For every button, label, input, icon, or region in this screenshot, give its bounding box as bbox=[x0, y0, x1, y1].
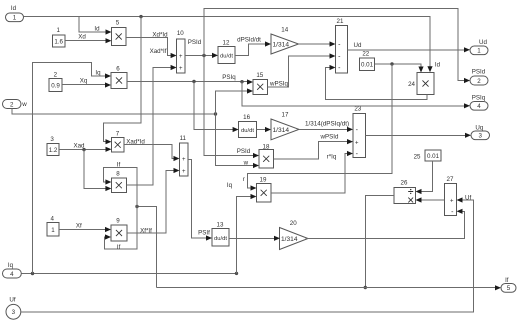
svg-text:Xf: Xf bbox=[76, 222, 82, 229]
wire from gain 14 to sum 21 input 1 bbox=[299, 41, 336, 46]
svg-text:+: + bbox=[179, 54, 183, 60]
wire If loop to product 9 input 2 bbox=[105, 207, 138, 251]
wire If rail to output port 5 bbox=[157, 285, 502, 290]
sum block 23 (Uq sum) bbox=[353, 106, 366, 159]
wire from derivative 13 to gain 20 bbox=[229, 236, 280, 241]
product block 7 (Xad*Id) bbox=[112, 130, 125, 152]
svg-text:0.9: 0.9 bbox=[51, 82, 60, 89]
svg-text:Xq: Xq bbox=[80, 78, 88, 85]
svg-text:wPSIq: wPSIq bbox=[269, 80, 288, 87]
svg-text:du/dt: du/dt bbox=[214, 236, 227, 242]
wire Ud from sum 21 to output port 1 bbox=[348, 42, 471, 52]
svg-text:4: 4 bbox=[477, 103, 481, 110]
product/divide block 26 (If=PSIf/rf) bbox=[394, 180, 416, 204]
wire 1/314(dPSIf/dt) from gain 20 to sum 27 minus input bbox=[306, 209, 465, 239]
svg-text:1/314: 1/314 bbox=[273, 42, 290, 49]
wire wPSId from product 18 to sum 23 input 2 bbox=[274, 134, 354, 160]
svg-text:Xad: Xad bbox=[73, 143, 85, 150]
svg-text:25: 25 bbox=[414, 153, 421, 160]
svg-text:1.2: 1.2 bbox=[49, 147, 58, 154]
wire r*Id from product 24 output to sum 21 input 3 bbox=[326, 65, 427, 99]
svg-text:Iq: Iq bbox=[95, 70, 101, 77]
svg-text:+: + bbox=[179, 66, 183, 72]
constant block 3 (Xad=1.2) bbox=[47, 136, 59, 156]
wire Xad branch down to product 8 input 2 bbox=[84, 150, 111, 192]
svg-text:2: 2 bbox=[477, 78, 481, 85]
wire PSIq branch to derivative 16 bbox=[194, 82, 239, 133]
svg-text:10: 10 bbox=[177, 30, 184, 37]
input port 2 (w) bbox=[3, 100, 28, 109]
svg-text:Id: Id bbox=[435, 61, 441, 68]
wire from derivative 16 to gain 17 bbox=[256, 127, 271, 132]
output port 1 (Ud) bbox=[470, 39, 488, 55]
wire Xad from constant 3 to product 7 input 2 bbox=[59, 143, 112, 152]
svg-text:24: 24 bbox=[408, 81, 415, 88]
wire dPSId/dt from derivative 12 to gain 14 bbox=[235, 37, 271, 56]
derivative block 16 (du/dt of PSIq) bbox=[239, 114, 257, 138]
svg-text:16: 16 bbox=[243, 114, 250, 121]
svg-text:Ud: Ud bbox=[354, 42, 362, 49]
derivative block 12 (du/dt of PSId) bbox=[218, 39, 235, 63]
constant block 1 (Xd=1.6) bbox=[53, 27, 66, 47]
svg-text:2: 2 bbox=[54, 72, 58, 79]
svg-text:PSId: PSId bbox=[237, 148, 251, 155]
wire Id branch to product 5 input 1 bbox=[79, 17, 112, 35]
svg-text:6: 6 bbox=[116, 65, 120, 72]
svg-text:Xad*Id: Xad*Id bbox=[126, 139, 145, 146]
svg-text:5: 5 bbox=[507, 285, 511, 292]
svg-text:+: + bbox=[182, 157, 186, 163]
output port 2 (PSId) bbox=[470, 69, 488, 86]
svg-text:PSIf: PSIf bbox=[198, 230, 210, 237]
sum block 21 (Ud sum) bbox=[336, 18, 348, 73]
svg-text:Uf: Uf bbox=[9, 297, 15, 304]
product block 24 (r*Id) bbox=[408, 73, 434, 95]
svg-text:PSId: PSId bbox=[472, 69, 486, 76]
svg-text:8: 8 bbox=[116, 171, 120, 178]
wire If loop to product 8 input 1 bbox=[104, 162, 138, 207]
product block 18 (w*PSId) bbox=[259, 144, 274, 168]
svg-text:3: 3 bbox=[12, 309, 16, 316]
wire PSIq branch to output port 4 bbox=[242, 82, 470, 109]
svg-text:20: 20 bbox=[290, 220, 297, 227]
product block 5 (Xd*Id) bbox=[112, 20, 127, 46]
svg-text:If: If bbox=[117, 162, 121, 169]
gain block 17 (1/314) bbox=[271, 112, 299, 140]
svg-text:Xad*If: Xad*If bbox=[150, 48, 167, 55]
svg-text:Xd*Id: Xd*Id bbox=[152, 32, 168, 39]
svg-text:Xd: Xd bbox=[78, 34, 86, 41]
svg-text:If: If bbox=[505, 278, 509, 284]
product block 19 (r*Iq) bbox=[257, 176, 272, 202]
svg-text:Ud: Ud bbox=[479, 39, 487, 46]
svg-text:0.01: 0.01 bbox=[427, 153, 440, 160]
svg-text:PSId: PSId bbox=[188, 39, 202, 46]
svg-text:26: 26 bbox=[401, 180, 408, 187]
wire 1/314(dPSIq/dt) from gain 17 to sum 23 input 1 bbox=[299, 120, 353, 132]
constant block 22 (r=0.01) bbox=[360, 51, 375, 71]
svg-text:4: 4 bbox=[50, 215, 54, 222]
wire w branch up to product 15 input 2 bbox=[216, 88, 254, 114]
svg-text:Id: Id bbox=[11, 5, 17, 12]
svg-text:Iq: Iq bbox=[227, 182, 233, 189]
svg-text:1: 1 bbox=[56, 27, 60, 34]
svg-text:19: 19 bbox=[260, 176, 267, 183]
svg-text:If: If bbox=[117, 244, 121, 251]
gain block 14 (1/314) bbox=[271, 27, 299, 55]
wire PSId from sum 10 to derivative 12 with branch dot bbox=[185, 39, 218, 58]
wire Iq branch up to product 19 input 2 bbox=[227, 182, 257, 274]
svg-text:18: 18 bbox=[263, 144, 270, 151]
svg-text:PSIq: PSIq bbox=[472, 95, 486, 102]
svg-text:1: 1 bbox=[477, 48, 481, 55]
svg-text:du/dt: du/dt bbox=[220, 53, 233, 59]
svg-text:0.01: 0.01 bbox=[361, 62, 374, 69]
wire If trunk up to junction bbox=[135, 205, 156, 288]
wire If from product 26 down to If rail bbox=[364, 196, 394, 290]
svg-text:5: 5 bbox=[116, 20, 120, 27]
wire Uf from input 3 to sum 27 plus input bbox=[21, 195, 474, 312]
svg-text:3: 3 bbox=[50, 136, 54, 143]
output port 4 (PSIq) bbox=[470, 95, 488, 111]
wire from sum 27 output to product 26 multiply input bbox=[416, 197, 445, 202]
wire PSIq from product 6 to product 15 input 1 bbox=[127, 74, 253, 85]
output port 5 (If) bbox=[501, 278, 516, 293]
wire Iq branch up-left to product 6 input 1 bbox=[33, 63, 112, 274]
svg-text:PSIq: PSIq bbox=[222, 74, 236, 81]
svg-text:27: 27 bbox=[447, 176, 454, 183]
constant block 25 (rf=0.01) bbox=[414, 150, 441, 161]
wire Uq from sum 23 to output port 3 bbox=[366, 133, 472, 138]
wire Xad*Id from product 7 to sum 11 input 1 bbox=[124, 139, 180, 162]
wire PSId branch down to product 18 input 1 bbox=[204, 56, 259, 159]
svg-text:1/314: 1/314 bbox=[273, 127, 290, 134]
svg-text:9: 9 bbox=[116, 218, 120, 225]
svg-text:4: 4 bbox=[10, 271, 14, 278]
wire Xad*If from product 8 to sum 10 input 2 bbox=[126, 48, 176, 185]
svg-text:7: 7 bbox=[116, 130, 120, 137]
svg-text:r*Iq: r*Iq bbox=[327, 153, 337, 160]
svg-text:22: 22 bbox=[362, 51, 369, 58]
wire Iq rail from input 4 bbox=[21, 272, 238, 276]
svg-text:+: + bbox=[450, 199, 454, 205]
wire Xf from constant 4 to product 9 input 1 bbox=[59, 222, 111, 232]
derivative block 13 (du/dt of PSIf) bbox=[212, 221, 229, 246]
svg-text:11: 11 bbox=[180, 135, 187, 142]
product block 15 (w*PSIq) bbox=[253, 72, 268, 95]
output port 3 (Uq) bbox=[471, 124, 490, 139]
product block 6 (Xq*Iq) bbox=[111, 65, 127, 88]
svg-text:15: 15 bbox=[256, 72, 263, 79]
svg-text:1/314: 1/314 bbox=[281, 236, 298, 243]
constant block 4 (Xf=1) bbox=[47, 215, 59, 236]
sum block 11 (PSIf) bbox=[180, 135, 189, 176]
svg-text:1: 1 bbox=[51, 227, 55, 234]
wire Xd*Id from product 5 to sum 10 input 1 bbox=[126, 32, 177, 59]
svg-text:Xf*If: Xf*If bbox=[140, 227, 152, 234]
wire PSIf from sum 11 to derivative 13 bbox=[188, 160, 212, 241]
svg-text:Id: Id bbox=[94, 26, 100, 33]
svg-text:du/dt: du/dt bbox=[241, 128, 254, 134]
gain block 20 (1/314) bbox=[280, 220, 309, 250]
input port 1 (Id) bbox=[6, 5, 24, 22]
wire Xf*If from product 9 to sum 11 input 2 bbox=[127, 168, 180, 235]
wire Id rail from input 1 to product 24 bbox=[24, 15, 441, 72]
input port 3 (Uf) bbox=[6, 297, 21, 320]
svg-text:w: w bbox=[243, 160, 249, 167]
wire Xd from constant 1 to product 5 input 2 bbox=[65, 34, 112, 44]
wire PSId top rail to output port 2 bbox=[204, 9, 470, 84]
wire r*Iq from product 19 to sum 23 input 3 bbox=[271, 151, 353, 193]
svg-text:dPSId/dt: dPSId/dt bbox=[237, 37, 261, 44]
sum block 10 (PSId=-Xd*Id+Xad*If) bbox=[177, 30, 185, 73]
svg-text:+: + bbox=[355, 140, 359, 146]
svg-text:12: 12 bbox=[223, 39, 230, 46]
product block 8 (Xad*If) bbox=[111, 171, 126, 193]
wire r=0.01 from constant 22 to product 24 input 1 bbox=[375, 62, 424, 72]
wire w branch down to product 18 input 2 bbox=[216, 114, 260, 168]
svg-text:2: 2 bbox=[10, 101, 14, 108]
svg-text:Uf: Uf bbox=[465, 195, 471, 202]
svg-text:3: 3 bbox=[479, 133, 483, 140]
sum block 27 (Uf - dPSIf/dt term, flipped) bbox=[445, 176, 457, 216]
svg-text:14: 14 bbox=[281, 27, 288, 34]
svg-text:1: 1 bbox=[13, 15, 17, 22]
constant block 2 (Xq=0.9) bbox=[49, 72, 62, 92]
svg-text:r: r bbox=[243, 176, 245, 183]
svg-text:1.6: 1.6 bbox=[54, 39, 63, 46]
input port 4 (Iq) bbox=[3, 262, 22, 278]
wire w from input 2 rail with branch dot bbox=[12, 109, 217, 116]
svg-text:Uq: Uq bbox=[475, 124, 483, 131]
wire Xq from constant 2 to product 6 input 2 bbox=[62, 78, 111, 88]
svg-text:+: + bbox=[182, 169, 186, 175]
wire rf=0.01 from constant 25 to product 26 divide input bbox=[416, 161, 433, 194]
svg-text:17: 17 bbox=[282, 112, 289, 119]
wire r branch down to product 19 input 1 bbox=[243, 64, 392, 191]
svg-text:23: 23 bbox=[354, 106, 361, 113]
svg-text:Iq: Iq bbox=[8, 262, 14, 269]
svg-text:1/314(dPSIq/dt): 1/314(dPSIq/dt) bbox=[305, 120, 349, 127]
svg-text:w: w bbox=[21, 101, 27, 108]
svg-text:13: 13 bbox=[217, 221, 224, 228]
product block 9 (Xf*If) bbox=[111, 218, 127, 241]
svg-text:21: 21 bbox=[337, 18, 344, 25]
wire Id branch to product 7 input 1 bbox=[104, 17, 142, 145]
svg-text:wPSId: wPSId bbox=[320, 134, 339, 141]
wire wPSIq from product 15 to sum 21 input 2 bbox=[268, 53, 336, 87]
